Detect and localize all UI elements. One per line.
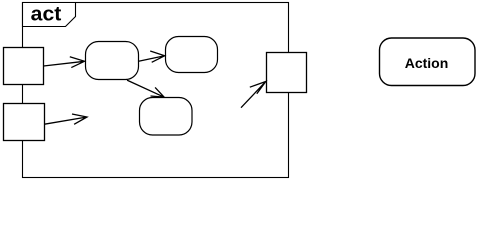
svg-text:act: act bbox=[31, 3, 62, 25]
svg-text:Action: Action bbox=[405, 55, 449, 71]
